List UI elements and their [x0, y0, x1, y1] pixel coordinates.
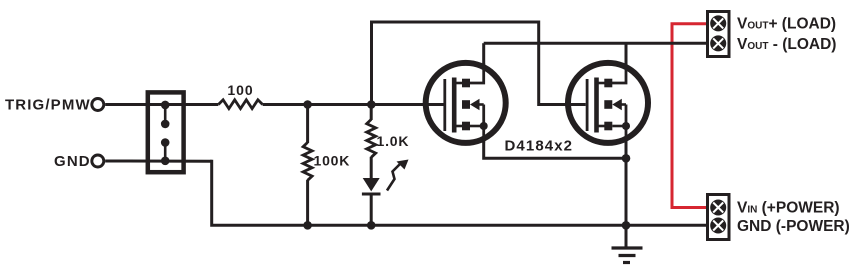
node dot R3 top	[367, 100, 376, 109]
LED D1	[362, 178, 381, 225]
Q1 drain wire up to drain rail	[482, 43, 485, 66]
svg-text:GND (-POWER): GND (-POWER)	[737, 218, 850, 235]
Q2 drain stub	[597, 82, 609, 85]
node dot source join	[622, 154, 631, 163]
Q1 source wire down	[484, 140, 626, 158]
node dot R2 bottom	[303, 221, 312, 230]
LED arrow	[387, 160, 409, 191]
Q1 gate bar	[443, 79, 446, 131]
Q2 body arrow	[604, 100, 612, 109]
screw terminal VOUT-	[710, 35, 726, 51]
MOSFET Q1	[426, 63, 506, 143]
Q2 gate bar	[586, 79, 589, 131]
drain rail wire to VOUT- terminal	[484, 42, 707, 45]
bottom rail wire (GND net)	[210, 161, 707, 225]
svg-text:1.0K: 1.0K	[377, 133, 410, 149]
node dot ground junction	[622, 221, 631, 230]
wire TRIG to header J1	[105, 103, 218, 106]
Q1 source junction dot	[480, 122, 488, 130]
resistor R1 100	[218, 100, 262, 109]
resistor R3 1.0K	[367, 105, 376, 179]
node dot R2 top	[303, 100, 312, 109]
node dot D1 bottom	[367, 221, 376, 230]
ground symbol	[612, 225, 643, 262]
MOSFET Q2	[568, 63, 648, 143]
jumper pin link 1-2	[161, 101, 170, 129]
svg-text:100: 100	[227, 82, 253, 98]
jumper pin link 3-4	[161, 138, 170, 165]
Q1 source stub	[454, 125, 466, 128]
terminal block TB1 (load)	[708, 12, 730, 57]
wire R1 to MOSFET Q1 gate	[263, 103, 445, 106]
red wire VOUT+ to VIN	[672, 24, 707, 208]
screw terminal GND	[710, 218, 726, 234]
header / jumper block J1	[148, 92, 184, 172]
terminal circle GND input	[92, 155, 104, 167]
Q1 drain stub	[454, 82, 466, 85]
svg-text:GND: GND	[54, 153, 91, 170]
gate rail wire (top loop to Q2 gate)	[372, 22, 586, 105]
Q1 body arrow	[462, 100, 470, 109]
Q1 channel bar	[452, 78, 457, 133]
resistor R2 100K	[303, 105, 312, 226]
terminal block TB2 (power)	[708, 195, 730, 240]
svg-text:TRIG/PMW: TRIG/PMW	[5, 96, 91, 113]
Q2 channel bar	[594, 78, 599, 133]
screw terminal VOUT+	[710, 15, 726, 31]
svg-text:100K: 100K	[314, 152, 351, 168]
svg-text:D4184x2: D4184x2	[505, 137, 574, 154]
terminal circle TRIG/PMW input	[92, 99, 104, 111]
wire GND through header J1	[105, 160, 212, 163]
Q2 drain wire up to drain rail	[625, 43, 628, 66]
Q2 source stub	[597, 125, 609, 128]
screw terminal VIN	[710, 200, 726, 216]
Q2 source wire down to bottom rail	[625, 140, 628, 225]
Q2 source junction dot	[622, 122, 630, 130]
